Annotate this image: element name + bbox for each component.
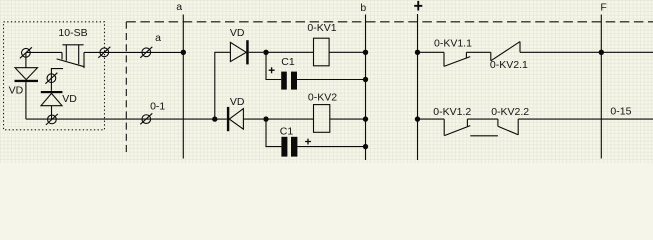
wire junction down to capacitor C1 lower xyxy=(266,119,281,147)
svg-text:10-SB: 10-SB xyxy=(58,27,87,39)
relay coil 0-KV1 xyxy=(314,38,330,66)
polarity + (lower capacitor) xyxy=(305,139,311,145)
wire capacitor C1 to bus b xyxy=(297,79,363,81)
junction lower rail right xyxy=(263,116,268,121)
junction bus + lower xyxy=(415,116,420,121)
diode VD4 (pointing left) xyxy=(227,107,229,131)
bus wire + (vertical) xyxy=(417,14,419,160)
svg-text:0-KV2: 0-KV2 xyxy=(308,92,337,104)
junction bus b lower xyxy=(363,116,368,121)
wire coil 0-KV2 to bus b xyxy=(330,118,363,120)
wire VD3 to junction xyxy=(249,51,264,53)
contact 0-KV2.2 (NC mirrored) xyxy=(470,119,518,136)
wire contact KV2.1 to bus F and edge xyxy=(520,51,653,53)
svg-text:0-KV1.1: 0-KV1.1 xyxy=(434,38,472,50)
wire VD1 to bottom rail xyxy=(25,82,27,119)
bus wire b (vertical) xyxy=(365,15,367,161)
svg-text:C1: C1 xyxy=(281,56,295,68)
wire contact KV1.2 to contact KV2.2 xyxy=(467,118,498,120)
svg-text:F: F xyxy=(600,1,606,13)
contact 0-KV1.1 (NC) xyxy=(444,52,470,66)
contact 0-KV1.2 (NC) xyxy=(444,119,470,136)
svg-text:b: b xyxy=(360,2,366,14)
wire T1 to pushbutton xyxy=(26,51,62,53)
dashed enclosure box (left, dotted) xyxy=(4,22,105,130)
terminal T2 (circle with slash) xyxy=(45,73,57,84)
svg-text:0-KV2.2: 0-KV2.2 xyxy=(491,106,529,118)
bus wire F (vertical) xyxy=(600,15,602,159)
node label + (plus supply) xyxy=(414,1,422,11)
capacitor C1 lower (two plates) xyxy=(281,137,287,157)
capacitor C1 upper (two plates) xyxy=(281,72,287,90)
wire riser junction to upper diode xyxy=(215,52,231,119)
svg-text:VD: VD xyxy=(230,96,245,108)
terminal T3 (circle with slash) xyxy=(46,114,58,125)
dashed boundary line (left edge of panel box) xyxy=(125,22,127,154)
svg-text:VD: VD xyxy=(230,27,245,39)
junction bus + upper xyxy=(415,50,420,55)
wire junction to coil 0-KV1 xyxy=(266,51,314,53)
wire junction to coil 0-KV2 xyxy=(266,118,314,120)
diode VD3 (pointing right) xyxy=(230,42,246,61)
junction lower rail xyxy=(212,116,217,121)
wire junction to diode VD4 xyxy=(215,118,227,120)
wire contact KV1.1 to contact KV2.1 xyxy=(466,51,490,53)
wire VD4 to junction xyxy=(243,118,263,120)
wire T1 down to diode VD1 xyxy=(25,53,27,68)
wire bus + to contact KV1.2 xyxy=(418,118,445,120)
wire bus + to contact KV1.1 xyxy=(418,51,445,53)
wire VD2 to terminal T3 xyxy=(51,106,53,120)
svg-text:0-1: 0-1 xyxy=(150,100,165,112)
wire pushbutton through terminals T4 and a to bus a junction xyxy=(84,51,181,53)
diode VD1 (pointing down) xyxy=(15,68,38,80)
wire bottom rail through terminals T3 and 0-1 to junction xyxy=(26,118,214,120)
junction bus b (cap return) xyxy=(363,77,368,82)
svg-text:VD: VD xyxy=(9,84,24,96)
svg-text:0-KV1.2: 0-KV1.2 xyxy=(433,106,471,118)
svg-text:C1: C1 xyxy=(280,126,294,138)
junction upper rail xyxy=(263,50,268,55)
terminal T1 (circle with slash) xyxy=(20,47,32,58)
junction on bus a xyxy=(181,50,186,55)
terminal a (circle with slash) xyxy=(140,47,152,58)
svg-text:VD: VD xyxy=(62,93,77,105)
svg-text:a: a xyxy=(155,32,161,44)
wire pushbutton blade to terminal T2 xyxy=(51,69,63,91)
terminal T4 (circle with slash on box edge) xyxy=(98,47,110,58)
junction bus b bottom xyxy=(363,144,368,149)
wire junction down to capacitor C1 xyxy=(266,52,281,79)
wire capacitor lower to bus b xyxy=(297,146,363,148)
wire coil 0-KV1 to bus b xyxy=(329,51,363,53)
relay coil 0-KV2 xyxy=(314,105,330,133)
terminal 0-1 (circle with slash) xyxy=(140,113,152,124)
svg-text:0-KV2.1: 0-KV2.1 xyxy=(490,59,528,71)
pushbutton SB contact xyxy=(57,45,85,68)
polarity + (upper capacitor) xyxy=(269,67,275,73)
diode VD2 (pointing up) xyxy=(41,91,63,93)
contact 0-KV2.1 (NO) xyxy=(491,42,520,61)
svg-text:a: a xyxy=(176,1,182,13)
junction bus F xyxy=(599,50,604,55)
svg-text:0-KV1: 0-KV1 xyxy=(307,22,336,34)
junction bus b upper xyxy=(363,50,368,55)
bus wire a (vertical) xyxy=(182,15,184,159)
dashed boundary line (top, panel) xyxy=(126,21,653,23)
svg-text:0-15: 0-15 xyxy=(610,105,631,117)
wire contact KV2.2 to edge xyxy=(518,118,653,120)
